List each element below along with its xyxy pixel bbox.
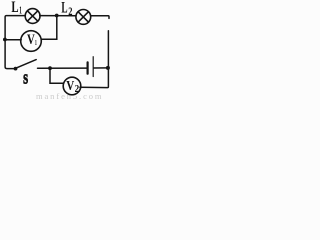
wire right rail (faded gap above) [107,31,109,68]
wire V1 left [5,39,21,41]
wire right rail lower + V2 right [80,68,108,88]
svg-text:1: 1 [35,38,37,47]
wire V1 right up to node B [41,16,57,40]
wire battery right to rail [94,67,108,69]
junction dot node D (battery / right rail) [106,66,110,70]
svg-text:2: 2 [75,84,80,95]
wire bottom (switch to battery) [38,67,87,69]
junction dot node A (left rail / V1) [3,38,7,42]
svg-text:1: 1 [19,5,22,16]
svg-text:V: V [66,79,74,94]
switch S [14,67,18,71]
wire between L1 and L2 [40,15,76,17]
svg-text:S: S [23,73,28,88]
junction dot node B (between L1 and L2) [55,14,59,18]
battery cell: short thick negative plate [86,62,88,73]
wire top-left horizontal and left rail [5,16,25,69]
svg-text:2: 2 [68,6,72,18]
junction dot node C (V2 branch) [48,66,52,70]
wire L2 right with corner stub [91,16,109,19]
svg-text:L: L [61,0,67,17]
voltmeter V1 [21,31,42,52]
lamp L1 [25,9,40,24]
lamp L2 [76,10,91,25]
voltmeter V2 [63,77,81,95]
battery cell: long thin positive plate [92,57,94,77]
wire V2 left branch [50,68,64,83]
svg-text:L: L [11,0,18,16]
